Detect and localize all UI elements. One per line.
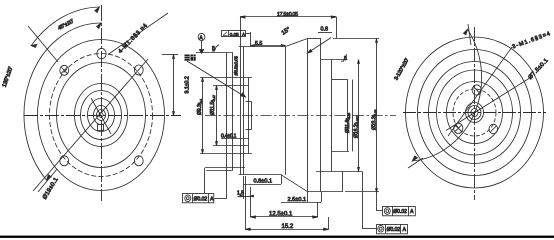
step low vert (342, 171, 344, 191)
svg-text:Ø19±0.1: Ø19±0.1 (42, 177, 60, 201)
radial line 225deg (38, 169, 57, 192)
centerline horizontal (403, 112, 546, 114)
circle d8 (97, 110, 106, 121)
shelf y85.4 (213, 85, 248, 87)
hole lower-left (454, 123, 463, 133)
dim1.5 ext b (250, 187, 252, 217)
bolt circle (dashed) (50, 54, 153, 177)
svg-text:3-120°±20': 3-120°±20' (394, 57, 411, 81)
dim dia9.3 line (202, 78, 204, 154)
dim12.5 line (251, 216, 318, 218)
datum A circle (198, 33, 205, 40)
frame2 (377, 224, 408, 234)
dim12.5 ext right (317, 202, 319, 217)
dim0.8b ext (281, 175, 283, 184)
svg-text:15.2: 15.2 (282, 224, 294, 230)
svg-text:9.1±0.2: 9.1±0.2 (185, 76, 191, 93)
radial tick top (468, 24, 471, 45)
circle d3 (57, 63, 146, 168)
radial line 135deg (28, 26, 58, 62)
frameL (183, 194, 214, 203)
svg-text:Ø23.3-0.330: Ø23.3-0.330 (371, 109, 377, 130)
hole3.5 right wall (251, 102, 253, 130)
dim dia23.3 line (376, 39, 378, 212)
svg-text:0.8±0.1: 0.8±0.1 (254, 179, 273, 185)
dim17.5 line (240, 16, 336, 18)
svg-text:Ø11.6-0.080: Ø11.6-0.080 (345, 113, 351, 133)
hole3.5 top (246, 101, 252, 103)
dim5.5 ext left (250, 32, 252, 47)
svg-text:0.05: 0.05 (230, 32, 239, 37)
svg-text:135°±20': 135°±20' (2, 66, 15, 88)
right top edge (321, 59, 348, 61)
hole top (472, 85, 481, 95)
hub ring 1 (466, 103, 484, 123)
dim1.5 line (238, 196, 254, 198)
cone top (286, 39, 308, 47)
circle d4 (75, 84, 128, 147)
frame2 leader horiz (362, 228, 376, 230)
centerline horizontal (24, 115, 181, 117)
flange bottom ext (205, 167, 245, 169)
body bottom edge (239, 174, 282, 176)
svg-text:Ø16.2-0.0270: Ø16.2-0.0270 (353, 116, 359, 138)
svg-text:Ø0.02: Ø0.02 (393, 209, 407, 215)
dim dia11.5 line (216, 85, 218, 145)
hole top (97, 48, 106, 58)
svg-text:1.5: 1.5 (237, 191, 244, 197)
frame leader (246, 33, 251, 35)
svg-text:8: 8 (344, 56, 347, 62)
svg-text:A: A (403, 227, 407, 233)
shelf y77.5 (200, 77, 252, 79)
svg-text:15°: 15° (281, 26, 292, 36)
hole lower-right (489, 124, 498, 134)
body left wall (240, 17, 242, 175)
dim1.5 ext a (243, 176, 245, 199)
svg-text:8: 8 (212, 46, 215, 52)
centerline vertical (474, 27, 476, 200)
inner bore top (332, 79, 348, 81)
dim17.5 right ext (336, 17, 338, 39)
inner bore bottom (332, 151, 350, 153)
outer circle (38, 40, 165, 191)
centerline vertical (101, 5, 103, 201)
hole upper-right (134, 65, 143, 75)
svg-text:Ø0.02: Ø0.02 (194, 196, 208, 202)
dim15.2 ext b (328, 217, 330, 229)
cyl big top (308, 38, 322, 40)
cone bottom (281, 175, 307, 192)
dim15.2 line (245, 229, 328, 231)
bottom black bar (0, 236, 554, 238)
dim2.5 line (281, 202, 321, 204)
cone start face (285, 47, 287, 175)
svg-text:A: A (410, 209, 414, 215)
svg-text:5.5: 5.5 (255, 41, 262, 47)
circle d6 (88, 99, 115, 132)
dim5.5 line (251, 45, 286, 47)
dim arc 120 (412, 29, 481, 161)
frameL leader (214, 198, 227, 200)
ext y38.5 right (333, 38, 379, 40)
frame2 leader vert (362, 171, 364, 229)
ext y191.7 right (345, 191, 379, 193)
circle r5 (447, 82, 503, 144)
datum A stem (201, 41, 203, 50)
svg-text:17.5±0.05: 17.5±0.05 (277, 12, 298, 18)
frame1 (383, 206, 416, 216)
dim dia11.6 line (352, 80, 354, 152)
svg-text:2.5±0.1: 2.5±0.1 (288, 197, 307, 203)
dim2.5 ext left (307, 192, 309, 202)
dim dia16.2 line (358, 60, 360, 172)
frameL vert leader (204, 168, 206, 194)
svg-text:12.5±0.1: 12.5±0.1 (269, 212, 293, 218)
hole3.5 bottom (246, 129, 252, 131)
circle d5 (81, 91, 122, 140)
cyl big left face (307, 39, 309, 192)
radial tick left (408, 158, 423, 168)
circle r3 (429, 62, 521, 164)
surface mark left (212, 45, 219, 51)
leader bold note (187, 61, 246, 97)
svg-text:Ø9.3-0.10: Ø9.3-0.10 (197, 99, 203, 115)
dim0.8 top line (318, 32, 332, 34)
frame top (222, 31, 246, 37)
frame1 leader (377, 210, 383, 212)
bore wall 1 (243, 47, 245, 175)
dim15.2 ext a (245, 176, 247, 229)
svg-text:Ø0.02: Ø0.02 (387, 227, 401, 233)
circle d7 (94, 106, 109, 125)
hole upper-left (60, 65, 69, 75)
cyl big bottom (308, 191, 344, 193)
centerline (205, 115, 396, 117)
hub ring 2 (468, 106, 481, 120)
svg-text:0.4±0.1: 0.4±0.1 (221, 133, 237, 139)
hub ring 3 (471, 109, 478, 117)
flange bottom line (206, 170, 233, 172)
bore wall 2 (248, 78, 250, 154)
svg-text:3-M1.6§3¤4: 3-M1.6§3¤4 (512, 31, 552, 51)
circle r4 (437, 70, 513, 155)
cyl big right face (320, 39, 322, 192)
flange right face (232, 53, 234, 170)
flange left face (226, 53, 228, 198)
body top edge (239, 46, 285, 48)
leader dia7.5 (446, 76, 533, 131)
dim2.5 ext right (321, 192, 323, 202)
4-M1.6 leader (108, 13, 168, 55)
flange top line (196, 52, 233, 54)
dim 9.1 line (173, 55, 175, 116)
dim 9.1 ext top (162, 54, 178, 56)
svg-text:0.8: 0.8 (321, 26, 329, 32)
leader 3-M1.6 (448, 47, 512, 136)
hole lower-left (60, 156, 69, 166)
dim arc 135 (24, 23, 101, 180)
hole lower-right (134, 156, 143, 166)
bolt circle dashed (453, 89, 496, 136)
inner bore left wall (331, 60, 333, 172)
svg-text:Ø11.5-0.170: Ø11.5-0.170 (210, 95, 216, 115)
dim0.8 top leader (308, 38, 332, 54)
circle d9 (99, 113, 103, 118)
dim0.8b line (244, 184, 281, 186)
dia19 leader line (33, 59, 148, 191)
svg-text:Ø3.5±0.05: Ø3.5±0.05 (233, 56, 238, 76)
surface mark right (341, 54, 347, 61)
shelf y145.6 (213, 145, 248, 147)
circle r2 (418, 50, 532, 176)
second diagonal through center (91, 98, 111, 134)
shelf y153.5 (200, 153, 252, 155)
outer circle (406, 37, 544, 188)
dim0.4 line (221, 138, 249, 140)
right lower edge (316, 171, 362, 173)
keyway notch (98, 125, 104, 131)
inner bore right wall (347, 80, 349, 152)
dim arc 45 (31, 7, 99, 46)
